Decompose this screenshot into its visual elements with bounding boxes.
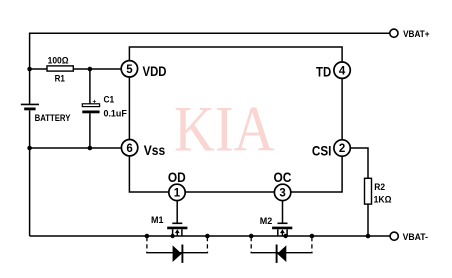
svg-text:OD: OD	[168, 169, 186, 185]
wire VDD row left segment	[30, 68, 48, 70]
svg-text:3: 3	[279, 188, 285, 200]
pin 3 OC	[274, 169, 292, 201]
op-amp U1 IC body outline	[129, 47, 342, 192]
svg-text:C1: C1	[104, 95, 115, 105]
svg-text:R2: R2	[374, 182, 385, 192]
svg-text:R1: R1	[55, 74, 66, 85]
svg-text:Vss: Vss	[144, 142, 166, 158]
wire left vertical from battery to bottom rail	[29, 110, 31, 236]
wire Vss row	[30, 147, 121, 149]
wire dashed M2 body-diode left leg	[250, 237, 252, 253]
svg-text:+: +	[93, 98, 97, 105]
battery BATTERY	[21, 104, 71, 123]
wire OD pin to M1 gate	[176, 201, 178, 223]
wire dashed M1 body-diode right leg	[206, 237, 208, 253]
resistor R2 1KΩ	[365, 178, 393, 204]
wire C1 top lead	[89, 69, 91, 104]
svg-text:VBAT-: VBAT-	[403, 232, 428, 242]
wire dashed M2 body-diode right leg	[311, 237, 313, 253]
wire C1 bottom lead	[89, 113, 91, 148]
resistor R1 100Ω	[47, 56, 73, 85]
KIA watermark	[174, 94, 275, 166]
wire dashed M1 body-diode left leg	[146, 237, 148, 253]
pin 6 Vss	[121, 140, 165, 159]
svg-text:2: 2	[339, 143, 345, 155]
transistor M2	[260, 216, 293, 236]
svg-text:TD: TD	[316, 63, 331, 79]
svg-text:4: 4	[339, 65, 346, 77]
pin 1 OD	[168, 169, 186, 201]
wire bottom rail VBAT-	[30, 235, 391, 237]
svg-text:M2: M2	[260, 216, 273, 226]
svg-text:KIA: KIA	[174, 94, 275, 166]
node junction dot M2 diode left	[249, 234, 254, 239]
svg-text:VBAT+: VBAT+	[403, 29, 430, 39]
node junction dot M1 diode left	[145, 234, 150, 239]
node VBAT+ terminal	[390, 29, 430, 39]
wire CSI to R2	[351, 148, 368, 179]
wire OC pin to M2 gate	[282, 201, 284, 223]
wire VDD row right segment	[73, 68, 121, 70]
pin 2 CSI	[312, 140, 350, 159]
node junction dot M1 source on rail	[170, 234, 174, 238]
svg-text:M1: M1	[151, 215, 164, 225]
svg-text:BATTERY: BATTERY	[35, 113, 71, 123]
svg-text:OC: OC	[274, 169, 292, 185]
node junction dot left of R1	[27, 67, 32, 72]
wire R2 bottom lead	[367, 204, 369, 236]
wire left vertical from top rail to battery	[29, 33, 31, 105]
capacitor C1 0.1uF	[82, 95, 127, 119]
wire M1 body-diode bottom	[147, 251, 208, 254]
node junction dot M1 diode right	[205, 234, 210, 239]
node junction dot M2 source on rail	[283, 234, 287, 238]
svg-text:VDD: VDD	[143, 63, 167, 79]
svg-text:1: 1	[174, 188, 181, 200]
node junction dot C1 bottom	[88, 146, 93, 151]
node VBAT- terminal	[390, 232, 428, 242]
diode D2 body diode of M2	[277, 245, 287, 263]
node junction dot battery/Vss row	[27, 146, 32, 151]
svg-text:6: 6	[126, 143, 132, 155]
svg-text:5: 5	[126, 64, 133, 76]
svg-text:100Ω: 100Ω	[48, 56, 69, 66]
svg-text:1KΩ: 1KΩ	[374, 194, 392, 204]
svg-text:CSI: CSI	[312, 142, 332, 158]
pin 5 VDD	[121, 61, 166, 79]
pin 4 TD	[316, 62, 350, 79]
node junction dot M2 diode right	[310, 234, 315, 239]
diode D1 body diode of M1	[173, 245, 183, 263]
wire top rail VBAT+	[30, 32, 390, 34]
transistor M1	[151, 215, 187, 236]
node junction dot right of R1 / C1 top	[88, 67, 93, 72]
wire M2 body-diode bottom	[251, 251, 312, 254]
node junction dot R2 on bottom rail	[366, 234, 371, 239]
svg-text:0.1uF: 0.1uF	[104, 109, 128, 119]
